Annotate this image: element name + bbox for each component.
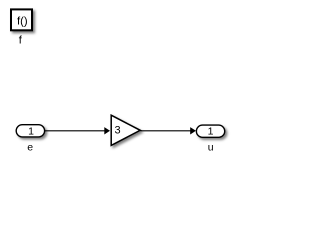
inport block 1 (e): [16, 125, 44, 137]
svg-text:1: 1: [208, 126, 214, 138]
svg-text:1: 1: [28, 125, 34, 137]
wire e to gain: [45, 130, 105, 132]
svg-text:3: 3: [114, 124, 120, 136]
arrowhead into gain: [104, 127, 110, 134]
arrowhead into outport: [190, 127, 196, 134]
svg-text:u: u: [208, 141, 214, 153]
wire gain to u: [140, 130, 190, 132]
function block f() U1: [11, 9, 32, 30]
gain block 3: [111, 115, 140, 145]
svg-text:f(): f(): [17, 16, 28, 28]
svg-text:e: e: [27, 142, 33, 154]
outport block 1 (u): [196, 125, 224, 137]
